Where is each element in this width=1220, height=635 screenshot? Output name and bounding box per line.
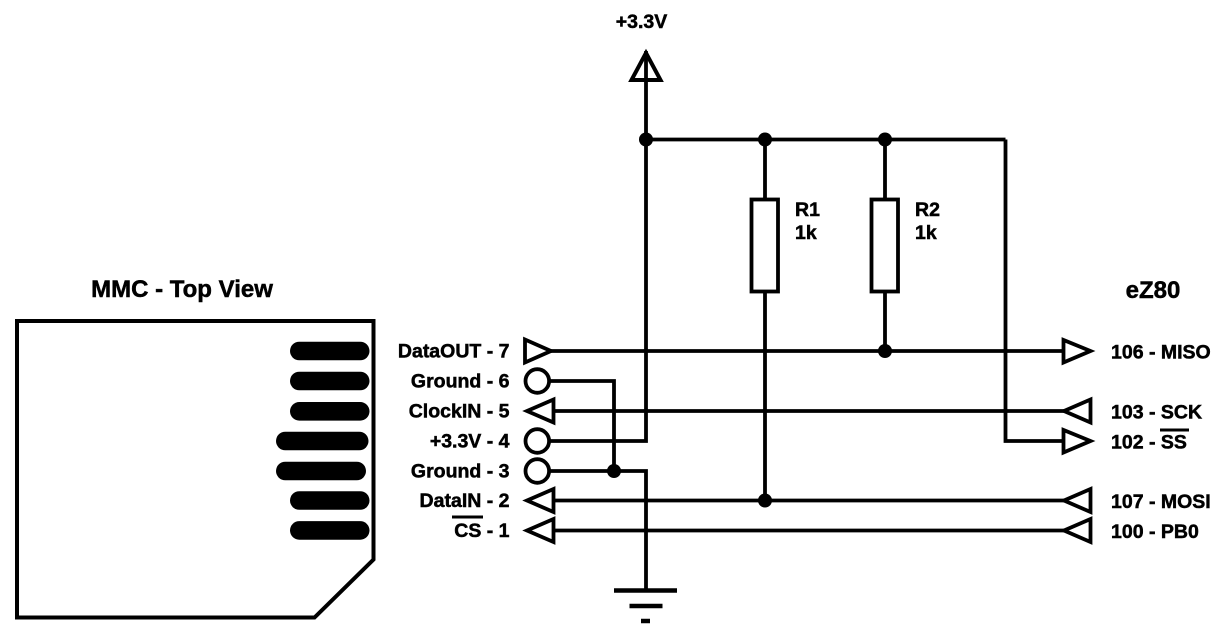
svg-text:+3.3V - 4: +3.3V - 4 [430, 431, 510, 453]
svg-text:106 - MISO: 106 - MISO [1111, 342, 1211, 364]
pin +3.3V-4 circle [526, 429, 550, 453]
MMC pad 5 [290, 402, 370, 421]
ground symbol [614, 588, 677, 593]
wire +3.3V-4 to supply rail [549, 140, 646, 442]
wire MISO net (DataOUT-7 to 106-MISO) [551, 349, 1063, 353]
MMC pad 1 [290, 521, 370, 540]
svg-text:Ground - 3: Ground - 3 [411, 461, 510, 483]
svg-text:107 - MOSI: 107 - MOSI [1111, 491, 1211, 513]
resistor R2 body [872, 200, 899, 292]
svg-text:102 - SS: 102 - SS [1111, 432, 1187, 454]
svg-text:103 - SCK: 103 - SCK [1111, 402, 1202, 424]
overline 102-SS [1160, 429, 1189, 432]
pin Ground-3 circle [526, 459, 550, 483]
svg-text:eZ80: eZ80 [1126, 277, 1181, 304]
eZ80 pin 102-SS triangle [1064, 430, 1091, 453]
eZ80 pin 107-MOSI triangle [1064, 489, 1091, 512]
pin CS-1 input triangle [527, 519, 554, 542]
svg-text:CS - 1: CS - 1 [454, 520, 509, 542]
svg-text:Ground - 6: Ground - 6 [411, 371, 510, 393]
pin DataOUT-7 output triangle [525, 340, 551, 363]
svg-text:1k: 1k [915, 222, 937, 244]
svg-text:+3.3V: +3.3V [616, 11, 668, 33]
wire MOSI net (DataIN-2 to 107-MOSI) [554, 499, 1065, 503]
svg-text:MMC - Top View: MMC - Top View [91, 276, 273, 303]
MMC card outline [17, 321, 374, 618]
junction node rail-left [639, 133, 653, 147]
pin Ground-6 circle [526, 369, 550, 393]
MMC pad 6 [290, 372, 370, 391]
resistor R1 body [752, 200, 779, 292]
MMC pad 4 [276, 432, 369, 451]
MMC pad 7 [290, 342, 370, 361]
MMC pad 3 [276, 462, 366, 481]
wire +3.3V supply drop from arrow [644, 51, 648, 140]
wire SCK net (ClockIN-5 to 103-SCK) [554, 409, 1065, 413]
pin ClockIN-5 input triangle [527, 400, 554, 423]
pin DataIN-2 input triangle [527, 489, 554, 512]
wire Ground-3 to ground symbol [549, 471, 646, 590]
wire R2 to MISO net [883, 292, 887, 352]
wire rail to 102-SS [1006, 140, 1065, 442]
wire PB0 net (CS-1 to 100-PB0) [554, 529, 1065, 533]
svg-text:R2: R2 [915, 199, 940, 221]
svg-text:1k: 1k [795, 222, 817, 244]
svg-text:R1: R1 [795, 199, 820, 221]
wire R1 to MOSI net [763, 292, 767, 501]
wire +3.3V rail [646, 138, 1006, 142]
junction node R2-MISO [878, 344, 892, 358]
junction node ground [607, 464, 621, 478]
MMC pad 2 [290, 491, 370, 510]
svg-text:DataIN - 2: DataIN - 2 [420, 490, 510, 512]
junction node rail-R1 [758, 133, 772, 147]
wire rail to R1 [763, 140, 767, 200]
junction node rail-R2 [878, 133, 892, 147]
overline CS-1 [452, 516, 483, 519]
eZ80 pin 103-SCK triangle [1064, 400, 1091, 423]
eZ80 pin 106-MISO triangle [1064, 340, 1091, 363]
wire rail to R2 [883, 140, 887, 200]
eZ80 pin 100-PB0 triangle [1064, 519, 1091, 542]
power symbol +3.3V arrow [632, 53, 661, 80]
wire Ground-6 to ground net [549, 381, 614, 471]
svg-text:ClockIN - 5: ClockIN - 5 [409, 401, 510, 423]
svg-text:100 - PB0: 100 - PB0 [1111, 521, 1199, 543]
svg-text:DataOUT - 7: DataOUT - 7 [398, 341, 510, 363]
junction node R1-MOSI [758, 494, 772, 508]
